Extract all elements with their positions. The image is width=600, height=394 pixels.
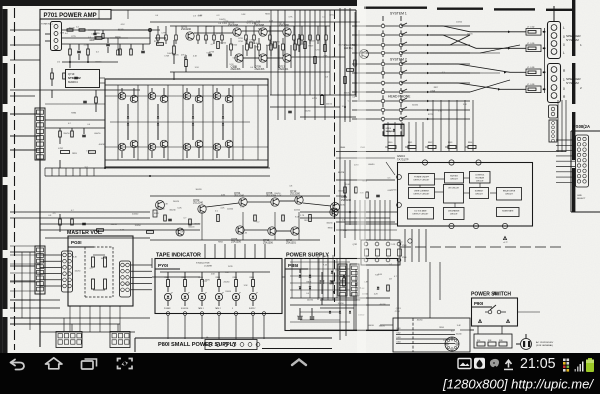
resistor R86 [250, 272, 255, 292]
wire [320, 296, 360, 340]
connector J715 [350, 264, 359, 296]
svg-text:L803: L803 [397, 337, 401, 339]
svg-text:POWER: POWER [164, 308, 171, 310]
node status upload icon [504, 360, 513, 370]
node status signal icon [575, 362, 584, 372]
wire [400, 246, 562, 248]
resistor R727 [59, 128, 62, 144]
wire [170, 72, 330, 80]
node MUTE label [338, 172, 345, 174]
resistor RP4 [445, 142, 456, 149]
svg-text:OR CIRCUIT: OR CIRCUIT [448, 188, 460, 190]
svg-text:400/30: 400/30 [380, 304, 387, 306]
svg-text:Q782: Q782 [352, 244, 357, 246]
connector J707 headphone jack [384, 124, 404, 136]
svg-text:400/50: 400/50 [206, 26, 213, 28]
resistor R773 [355, 187, 358, 193]
wire [40, 212, 200, 230]
svg-text:MARK4: MARK4 [68, 80, 78, 84]
svg-text:GND4: GND4 [386, 128, 392, 130]
resistor R707 [119, 44, 122, 55]
wire [336, 162, 395, 222]
diode D3 [192, 104, 194, 140]
svg-text:SYSTEM 1: SYSTEM 1 [390, 12, 407, 16]
node A [148, 28, 151, 31]
switch S1 contact [352, 23, 470, 28]
svg-text:SUBSTRATE: SUBSTRATE [502, 210, 514, 213]
svg-text:TAPE 1: TAPE 1 [198, 307, 204, 310]
svg-text:4.1K: 4.1K [193, 56, 198, 58]
svg-text:+L7¹: +L7¹ [503, 241, 508, 244]
capacitor C721 [376, 195, 380, 196]
connector J713 [361, 240, 407, 265]
svg-text:0.5: 0.5 [91, 33, 94, 35]
node Relay Drive block [497, 188, 522, 201]
wire [70, 306, 120, 332]
svg-text:TAPE INDICATOR: TAPE INDICATOR [156, 253, 201, 259]
svg-text:5.9K: 5.9K [240, 207, 245, 209]
svg-text:0.8: 0.8 [271, 42, 274, 44]
resistor emitter row [230, 38, 297, 56]
svg-text:4.7K: 4.7K [60, 33, 65, 35]
node AC voltage label [536, 341, 554, 347]
potentiometer VR701 [85, 247, 113, 297]
svg-text:5.7K: 5.7K [277, 195, 282, 197]
svg-text:R805: R805 [233, 277, 237, 279]
svg-text:5.9K: 5.9K [198, 15, 203, 17]
svg-text:R08: R08 [488, 340, 491, 342]
wire [62, 61, 118, 68]
svg-text:OVER CURRENT: OVER CURRENT [414, 191, 430, 193]
svg-text:3.6K: 3.6K [256, 21, 261, 23]
svg-text:200/50: 200/50 [225, 291, 231, 293]
resistor R751 [217, 215, 220, 222]
node leftlow labels [48, 210, 141, 232]
node android bar [0, 353, 600, 394]
svg-text:CONTROL: CONTROL [475, 175, 484, 177]
node protection left labels [346, 164, 398, 195]
svg-text:[1280x800] http://upic.me/: [1280x800] http://upic.me/ [442, 376, 594, 391]
wire [45, 237, 150, 239]
svg-text:0: 0 [563, 35, 565, 39]
node PB51 POWER SUPPLY title [285, 253, 398, 331]
wire [10, 30, 40, 324]
transistor Q712 2SC3280 [290, 189, 303, 204]
node P801 title [135, 338, 332, 352]
svg-text:R896: R896 [254, 47, 259, 49]
svg-text:21:05: 21:05 [520, 356, 556, 372]
transistor Q710 2SA1306 [263, 227, 276, 245]
node top labels [155, 13, 335, 25]
resistor R741 [304, 42, 307, 49]
svg-text:200/20: 200/20 [456, 22, 462, 24]
transistor pair T1 top [118, 88, 138, 103]
resistor R735 [63, 73, 66, 79]
transformer T901 [474, 326, 512, 348]
svg-text:CIRCUIT: CIRCUIT [450, 214, 459, 216]
svg-text:400/40: 400/40 [118, 29, 124, 31]
svg-text:Q716: Q716 [392, 189, 398, 191]
svg-text:DC VOLTAGE: DC VOLTAGE [415, 210, 428, 213]
svg-text:1: 1 [580, 43, 582, 47]
svg-text:300/50: 300/50 [194, 223, 201, 225]
transistor Q707 2SC3298 [254, 21, 267, 37]
svg-text:100/30: 100/30 [304, 110, 311, 112]
node status sync icon [563, 359, 569, 372]
capacitor C715 [288, 111, 292, 112]
wire [118, 30, 166, 44]
transistor pair T2 bottom [148, 140, 168, 158]
resistor RP5 [465, 142, 476, 149]
resistor R721 [250, 42, 253, 48]
resistor RP3 [425, 142, 436, 149]
connector J710 [549, 105, 558, 118]
svg-text:R806: R806 [250, 277, 254, 279]
resistor RP2 [405, 142, 416, 149]
svg-text:4.4K: 4.4K [84, 44, 89, 46]
capacitor C852 [330, 281, 335, 283]
wire [300, 212, 397, 230]
resistor R703 [87, 44, 90, 62]
wire [334, 10, 336, 302]
svg-text:f♪: f♪ [184, 56, 187, 60]
node psu labels [307, 265, 402, 317]
svg-text:8.5K: 8.5K [233, 67, 238, 69]
switch S3 contact [352, 98, 470, 103]
wire [10, 252, 60, 330]
wire [45, 90, 140, 98]
wire [110, 38, 128, 55]
capacitor C709 [82, 128, 86, 137]
wire [45, 30, 150, 44]
connector J703 [62, 251, 73, 292]
resistor network top bus [157, 26, 328, 44]
resistor R84 [216, 272, 221, 292]
wire [290, 269, 390, 330]
svg-text:L802: L802 [397, 333, 401, 335]
wire [40, 10, 356, 347]
capacitor C702 [93, 30, 96, 40]
svg-text:CIRCUIT: CIRCUIT [450, 179, 459, 181]
svg-text:400/40: 400/40 [368, 164, 375, 166]
wire [388, 122, 423, 152]
resistor R729 [71, 128, 74, 137]
resistor R719 [217, 42, 220, 49]
node bottom labels3 [417, 319, 462, 342]
svg-text:2SA1301: 2SA1301 [279, 68, 290, 71]
wire [45, 78, 105, 104]
svg-text:200/20: 200/20 [467, 33, 473, 35]
resistor R717 [185, 55, 188, 72]
svg-text:P90I: P90I [474, 301, 483, 306]
node nav home icon [46, 358, 63, 369]
resistor L735 0.5ohm [526, 84, 544, 92]
svg-text:300/20: 300/20 [195, 189, 202, 191]
svg-text:400/40: 400/40 [132, 214, 139, 216]
inductor L702 [58, 148, 70, 154]
resistor R725 [298, 34, 301, 52]
node psu labels2 [297, 264, 393, 327]
node watermark text [442, 376, 594, 391]
connector P903 AC plug [516, 334, 532, 350]
node PG01 MASTER VOL title [67, 230, 133, 306]
resistor R775 [366, 192, 369, 198]
svg-text:0.3: 0.3 [88, 37, 91, 39]
node P701 POWER AMP title box [40, 10, 111, 20]
switch S2 contact [352, 80, 470, 85]
resistor L735 0.5ohm [526, 43, 544, 51]
svg-text:400/30: 400/30 [99, 144, 106, 146]
svg-text:R8L0: R8L0 [388, 142, 392, 144]
wire [558, 100, 566, 152]
diode D851 [299, 269, 301, 277]
svg-text:100/40: 100/40 [158, 208, 165, 210]
svg-text:D749: D749 [228, 266, 233, 268]
svg-text:L701: L701 [312, 98, 318, 100]
connector J719 socket [445, 337, 459, 351]
svg-text:R817: R817 [434, 87, 439, 89]
connector J709 speaker system 2 [548, 64, 561, 103]
svg-text:200/40: 200/40 [456, 334, 462, 336]
node Substrate block [497, 208, 520, 217]
node Power On/Off block [409, 174, 435, 186]
LED D803 [198, 292, 206, 306]
switch S2 contact [352, 70, 470, 75]
capacitor C703 [106, 38, 110, 53]
resistor R701 [69, 44, 72, 62]
transistor Q703 2SC3298 [228, 21, 241, 37]
node SYSTEM 2 label [390, 58, 407, 62]
transistor Q720 [176, 228, 184, 236]
svg-text:L: L [563, 51, 565, 55]
capacitor C701 [77, 44, 81, 60]
svg-text:L7· 0.5Ω: L7· 0.5Ω [527, 27, 535, 29]
svg-text:L804: L804 [397, 342, 401, 344]
wire [430, 262, 440, 318]
resistor R755 [282, 215, 285, 221]
diode D4 [222, 104, 224, 140]
capacitor C713 [83, 101, 87, 102]
svg-text:R894: R894 [439, 327, 444, 329]
svg-text:R803: R803 [199, 277, 203, 279]
node input extra labels [76, 24, 125, 42]
svg-text:200/20: 200/20 [173, 201, 180, 203]
node nav back icon [11, 360, 25, 370]
svg-text:300/20: 300/20 [344, 93, 351, 95]
resistor R723 [274, 42, 277, 48]
svg-text:PS0II(2A: PS0II(2A [573, 124, 590, 129]
svg-text:Q775: Q775 [202, 281, 207, 283]
svg-text:300/20: 300/20 [379, 325, 386, 327]
svg-text:2.0K: 2.0K [204, 39, 209, 41]
svg-text:RELAY DRIVE: RELAY DRIVE [503, 190, 516, 193]
svg-text:2.3K: 2.3K [164, 203, 169, 205]
wire [420, 178, 497, 207]
svg-text:7.8K: 7.8K [332, 56, 337, 58]
svg-text:SYSTEM: SYSTEM [566, 81, 579, 85]
svg-text:R802: R802 [182, 277, 186, 279]
capacitor C707 [208, 54, 212, 55]
svg-text:R8L2: R8L2 [428, 142, 432, 144]
wire [383, 16, 401, 136]
node Q701 cluster labels [164, 39, 238, 69]
wire [10, 252, 200, 281]
node tape labels [202, 266, 248, 293]
node nav screenshot icon [118, 359, 133, 369]
diode D761 [331, 271, 333, 273]
diode D1 [127, 104, 129, 140]
resistor R757 [309, 215, 312, 222]
capacitor C851 [320, 272, 325, 294]
wire [340, 8, 350, 160]
IC U702 power pack box [105, 79, 268, 167]
node input labels [57, 28, 102, 64]
resistor R853 [387, 285, 390, 291]
svg-text:L7· 0.5Ω: L7· 0.5Ω [527, 84, 535, 86]
node +L7 arrows [398, 236, 508, 244]
svg-text:6.3K: 6.3K [243, 232, 248, 234]
wire [556, 140, 575, 182]
svg-text:0.1: 0.1 [351, 294, 354, 296]
node speaker labels 2 [563, 69, 582, 99]
switch S3 contact [352, 107, 470, 112]
svg-text:2SA1306: 2SA1306 [263, 242, 274, 245]
svg-text:Q713: Q713 [396, 308, 402, 310]
node top labels3 [211, 29, 291, 49]
wire [290, 258, 350, 298]
transistor Q714 2SA1301 [286, 227, 299, 245]
node page seam [357, 6, 366, 353]
wire [300, 255, 340, 320]
transistor pair T1 bottom [118, 140, 138, 158]
node HEAD PHONE label [388, 95, 411, 99]
capacitor C711 [74, 77, 78, 78]
LED D802 [181, 292, 189, 306]
wire [105, 85, 268, 160]
diode D762 [331, 281, 333, 283]
node chevron up [292, 360, 306, 366]
connector J711 [576, 135, 589, 187]
IC P802 block [393, 318, 470, 352]
svg-text:GND: GND [577, 195, 582, 197]
transistor Q715 2SA1670 [344, 43, 369, 59]
svg-text:·B·: ·B· [206, 337, 209, 339]
wire [10, 114, 105, 150]
node Discharge block [444, 208, 465, 220]
svg-text:0: 0 [563, 87, 565, 91]
svg-text:300/20: 300/20 [338, 190, 345, 192]
connector J708 speaker system 1 [548, 22, 561, 59]
resistor R763 [71, 219, 74, 225]
wire [105, 96, 268, 147]
node master vol wires [10, 246, 40, 300]
node nav recents icon [82, 359, 97, 369]
transistor pair T2 top [148, 88, 168, 103]
node P901 POWER SWITCH title [471, 292, 518, 327]
resistor R781 [153, 210, 191, 225]
svg-text:PG0I: PG0I [71, 240, 81, 245]
wire [118, 85, 258, 160]
resistor R749 [347, 69, 354, 72]
resistor R771 [344, 182, 347, 200]
connector J704 [120, 261, 131, 297]
wire [202, 212, 299, 240]
svg-text:R8L3: R8L3 [448, 142, 452, 144]
connector J701 [41, 22, 62, 51]
node status battery icon [586, 358, 594, 372]
resistor R737 [95, 90, 98, 112]
wire [0, 0, 357, 6]
resistor R733 [51, 68, 54, 86]
svg-text:Q758: Q758 [223, 21, 229, 23]
svg-text:DETECT CIRCUIT: DETECT CIRCUIT [414, 194, 431, 196]
svg-text:L: L [563, 26, 565, 30]
svg-text:SCHMIDT: SCHMIDT [475, 191, 484, 193]
svg-text:R778: R778 [428, 114, 433, 116]
svg-text:CIRCUIT: CIRCUIT [476, 181, 485, 183]
resistor R761 [59, 214, 62, 232]
transistor Q709 2SA1306 [255, 54, 268, 71]
svg-text:MASTER VOL.: MASTER VOL. [67, 230, 103, 236]
node PY01 TAPE INDICATOR title [155, 253, 282, 314]
svg-text:100/50: 100/50 [227, 208, 234, 210]
svg-text:VOLTAGE: VOLTAGE [475, 177, 484, 180]
wire [433, 100, 473, 151]
switch S1 contact [352, 42, 470, 47]
inductor L701 [312, 96, 324, 105]
svg-text:6.0K: 6.0K [177, 208, 182, 210]
svg-text:AC 120/220/240V: AC 120/220/240V [536, 341, 554, 344]
resistor R743 [314, 57, 317, 64]
resistor R85 [233, 272, 238, 292]
svg-text:2SA1306: 2SA1306 [231, 241, 242, 244]
resistor R715 [173, 40, 176, 64]
transistor Q718 [156, 201, 165, 210]
node output labels [299, 41, 356, 113]
svg-text:400/20: 400/20 [111, 224, 118, 226]
node midleft labels [63, 113, 105, 169]
svg-text:6.5K: 6.5K [252, 23, 257, 25]
LED D804 [215, 292, 223, 306]
node bus labels [340, 147, 366, 149]
svg-text:POWER ON/OFF: POWER ON/OFF [414, 177, 430, 179]
svg-text:6.0K: 6.0K [233, 58, 238, 60]
wire [205, 244, 265, 258]
svg-text:200/40: 200/40 [224, 281, 230, 283]
svg-text:R756: R756 [275, 42, 280, 44]
node PS011 title [573, 124, 590, 129]
diode D763 [333, 275, 357, 293]
svg-text:0.4: 0.4 [76, 26, 79, 28]
diode D855 [377, 287, 379, 289]
svg-text:7.4K: 7.4K [323, 56, 328, 58]
transistor pair T3 top [183, 88, 203, 103]
switch S1 contact [352, 32, 470, 37]
node junctions [397, 160, 508, 229]
transistor Q716 2SC2240 [331, 196, 352, 212]
svg-text:SOURCE: SOURCE [181, 308, 189, 310]
svg-text:1.7K: 1.7K [300, 215, 305, 217]
svg-text:100/30: 100/30 [125, 284, 131, 286]
node Control block [470, 172, 491, 184]
wire [168, 316, 264, 340]
svg-text:9.9K: 9.9K [241, 14, 246, 16]
svg-text:0.7: 0.7 [211, 44, 214, 46]
resistor R82 [182, 272, 187, 292]
svg-text:R804: R804 [216, 277, 220, 279]
svg-text:MUTING: MUTING [450, 176, 458, 178]
wire [354, 12, 500, 100]
